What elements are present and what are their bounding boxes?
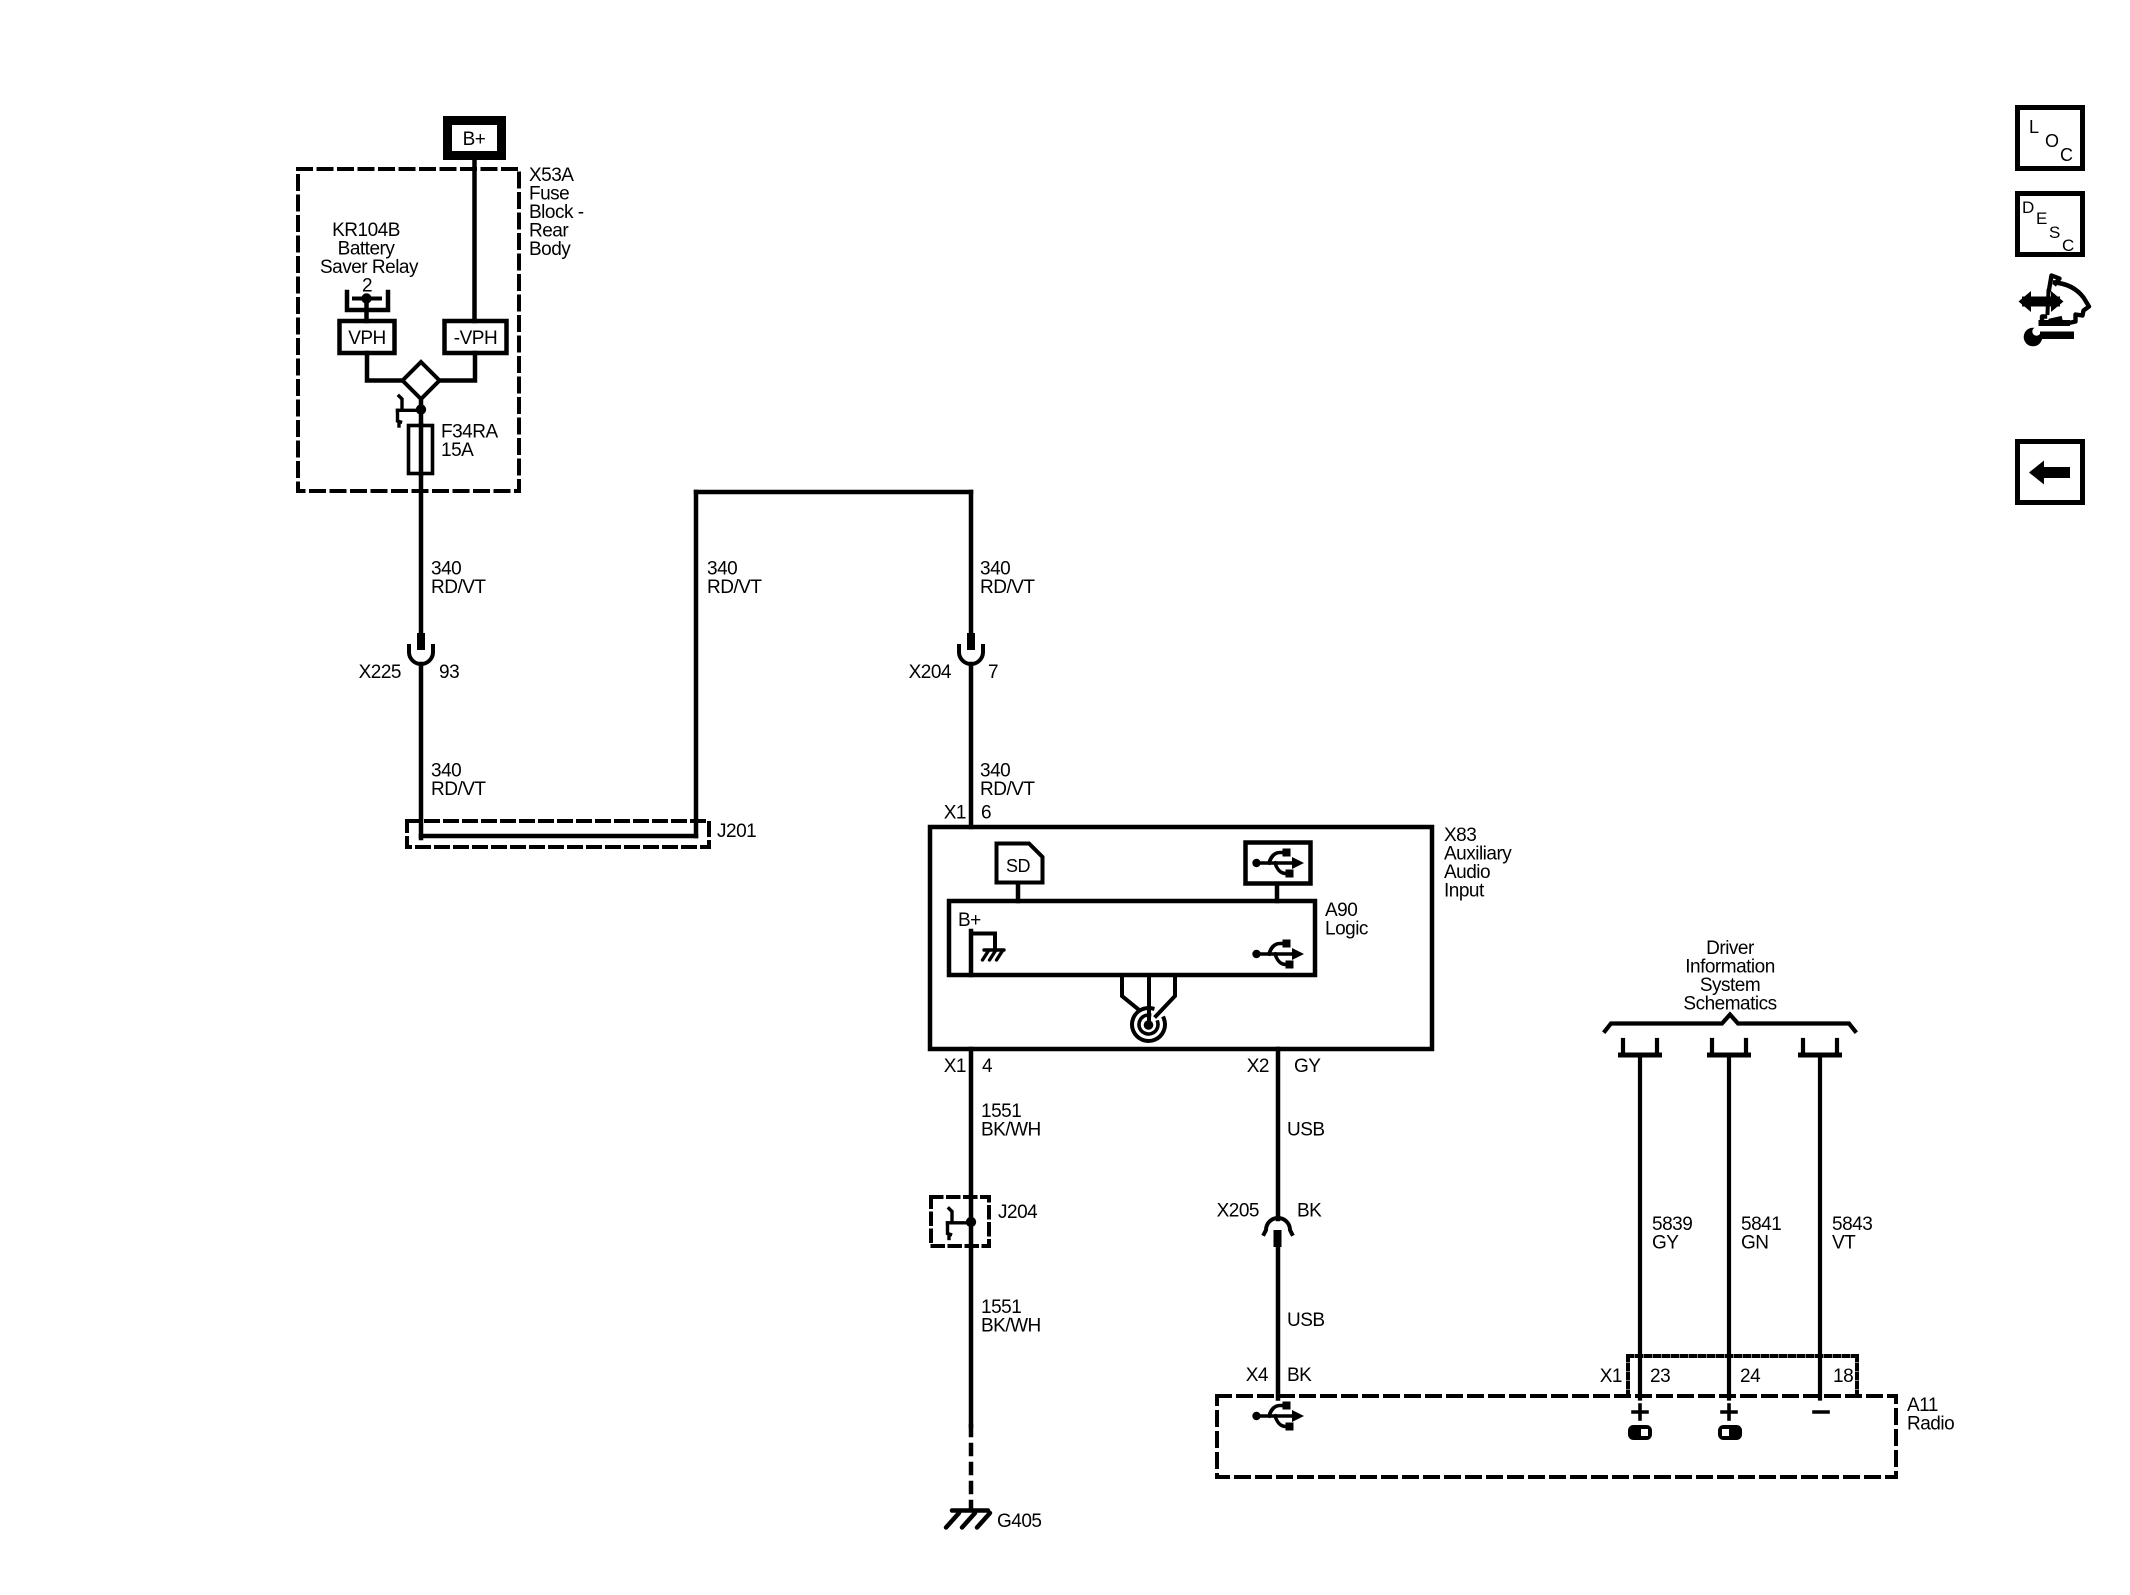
USB trident inside A11: [1252, 1402, 1304, 1431]
chassis ground inside A90: [983, 950, 1005, 960]
terminal box -VPH: [445, 321, 507, 353]
service icon double arrow: [2019, 291, 2064, 312]
internal wire pin 4: [969, 931, 974, 975]
svg-text:E: E: [2036, 209, 2047, 228]
svg-text:4: 4: [982, 1056, 993, 1077]
wire label 340 RD/VT: [431, 559, 486, 599]
USB trident inside A90: [1252, 940, 1304, 969]
wire -VPH to diamond: [439, 353, 475, 381]
service icon panel outline: [2042, 276, 2090, 324]
wire label 1551 BK/WH: [981, 1101, 1041, 1141]
label Driver Information System Schematics: [1683, 938, 1776, 1015]
internal ground stub: [971, 934, 995, 949]
svg-text:X1: X1: [944, 803, 966, 824]
pin label X1 4: [944, 1056, 993, 1077]
svg-text:RD/VT: RD/VT: [431, 577, 486, 598]
module A90 Logic box: [949, 901, 1315, 975]
svg-text:Body: Body: [529, 239, 571, 260]
connector X205: [1264, 1218, 1292, 1247]
svg-text:BK/WH: BK/WH: [981, 1120, 1041, 1141]
wire label 5839 GY: [1652, 1214, 1692, 1254]
wire through J204: [969, 1197, 974, 1246]
svg-text:15A: 15A: [441, 440, 474, 461]
brace: [1605, 1015, 1855, 1032]
svg-text:VPH: VPH: [348, 328, 386, 349]
label X53A Fuse Block - Rear Body: [529, 165, 584, 260]
tap splice symbol J204: [948, 1209, 977, 1239]
module X83 Auxiliary Audio Input box: [930, 827, 1432, 1049]
svg-text:B+: B+: [463, 129, 486, 150]
pin label X4 BK: [1246, 1365, 1312, 1386]
pin header dotted box: [1628, 1356, 1857, 1394]
svg-text:USB: USB: [1287, 1120, 1325, 1141]
label X204 7: [909, 662, 998, 683]
terminal box VPH: [340, 321, 395, 353]
svg-text:X4: X4: [1246, 1365, 1269, 1386]
fuse F34RA: [409, 425, 433, 474]
svg-text:93: 93: [439, 662, 459, 683]
label X205 BK: [1217, 1201, 1323, 1222]
wire J201 up riser: [694, 492, 699, 836]
connector X225 pin 93: [409, 633, 433, 664]
svg-text:D: D: [2022, 198, 2034, 217]
label relay KR104B Battery Saver Relay: [320, 220, 419, 297]
svg-text:RD/VT: RD/VT: [980, 577, 1035, 598]
nav icon DESC box: [2018, 194, 2083, 256]
wire 5841: [1727, 1055, 1731, 1399]
svg-text:18: 18: [1833, 1366, 1853, 1387]
splice J201 dashed box: [407, 821, 709, 847]
DIS connector 3: [1801, 1040, 1840, 1055]
wire label 340 RD/VT: [707, 559, 762, 599]
wire label 340 RD/VT: [980, 761, 1035, 801]
USB port icon (top): [1246, 843, 1311, 884]
dashed wire to ground: [969, 1426, 974, 1509]
wire label 1551 BK/WH: [981, 1297, 1041, 1337]
svg-text:X1: X1: [944, 1056, 966, 1077]
wire X204 to X83: [969, 664, 974, 827]
svg-text:BK/WH: BK/WH: [981, 1316, 1041, 1337]
svg-text:GY: GY: [1652, 1233, 1679, 1254]
tap splice symbol at fuse feed: [398, 396, 427, 426]
wire J204 down: [969, 1246, 974, 1426]
wire X2 to X205: [1276, 1049, 1281, 1219]
wire VPH to diamond: [367, 353, 403, 381]
relay KR104B terminal 2 symbol: [347, 292, 388, 321]
label X83 Auxiliary Audio Input: [1444, 825, 1512, 902]
fuse block X53A dashed box: [298, 169, 519, 491]
svg-text:L: L: [2029, 117, 2039, 137]
svg-text:S: S: [2049, 223, 2060, 242]
svg-text:Logic: Logic: [1325, 919, 1368, 940]
svg-text:X1: X1: [1600, 1366, 1622, 1387]
chassis ground G405: [946, 1511, 990, 1528]
svg-text:GY: GY: [1294, 1056, 1321, 1077]
junction diamond: [403, 362, 440, 399]
svg-text:G405: G405: [997, 1511, 1041, 1532]
svg-text:C: C: [2060, 145, 2073, 165]
svg-text:X204: X204: [909, 662, 952, 683]
svg-text:X2: X2: [1247, 1056, 1269, 1077]
aux jack symbol below A90: [1122, 976, 1175, 1046]
wire 5843: [1818, 1055, 1822, 1399]
wire label 340 RD/VT: [980, 559, 1035, 599]
svg-text:X205: X205: [1217, 1201, 1259, 1222]
radio A11 dashed box: [1217, 1396, 1896, 1477]
svg-text:RD/VT: RD/VT: [980, 779, 1035, 800]
wire B+ down to -VPH: [472, 160, 477, 321]
polarity plus pin23: [1633, 1405, 1647, 1419]
svg-text:USB: USB: [1287, 1310, 1325, 1331]
wire top horizontal run: [696, 490, 971, 495]
wire SD to A90: [1016, 883, 1021, 901]
nav icon LOC box: [2018, 108, 2083, 169]
wire J201 horizontal: [421, 834, 696, 839]
svg-text:C: C: [2062, 236, 2074, 255]
svg-text:24: 24: [1740, 1366, 1761, 1387]
wire X205 to A11: [1276, 1247, 1281, 1399]
connector X204 pin 7: [959, 633, 983, 664]
SD card icon: [997, 844, 1043, 883]
label A90 Logic: [1325, 900, 1368, 940]
DIS connector 2: [1710, 1040, 1749, 1055]
wire diamond to fuse: [419, 399, 424, 425]
wire down to X204: [969, 492, 974, 633]
pin label X2 GY: [1247, 1056, 1322, 1077]
splice J204 dashed box: [931, 1197, 989, 1246]
label F34RA 15A: [441, 422, 498, 462]
polarity minus pin18: [1814, 1410, 1828, 1414]
svg-text:-VPH: -VPH: [454, 328, 497, 349]
DIS connector 1: [1621, 1040, 1660, 1055]
svg-text:7: 7: [988, 662, 998, 683]
wire label 340 RD/VT: [431, 761, 486, 801]
back button box: [2018, 442, 2083, 503]
svg-text:J201: J201: [717, 821, 756, 842]
speaker icon left: [1628, 1425, 1652, 1440]
pin label X1 6: [944, 803, 991, 824]
speaker icon right: [1718, 1425, 1742, 1440]
svg-text:Input: Input: [1444, 881, 1485, 902]
svg-text:X225: X225: [359, 662, 401, 683]
wire 5839: [1638, 1055, 1642, 1399]
svg-text:BK: BK: [1297, 1201, 1322, 1222]
svg-text:B+: B+: [958, 910, 981, 931]
svg-text:RD/VT: RD/VT: [431, 779, 486, 800]
svg-text:O: O: [2045, 131, 2059, 151]
wire fuse to X225: [419, 474, 424, 633]
svg-text:RD/VT: RD/VT: [707, 577, 762, 598]
power node B+: [448, 121, 502, 156]
label X225 93: [359, 662, 460, 683]
svg-text:BK: BK: [1287, 1365, 1312, 1386]
wire X83 pin4 down to J204: [969, 1049, 974, 1197]
wire label 5841 GN: [1741, 1214, 1781, 1254]
wire label 5843 VT: [1832, 1214, 1872, 1254]
svg-text:23: 23: [1650, 1366, 1670, 1387]
label A11 Radio: [1907, 1395, 1954, 1435]
svg-text:Radio: Radio: [1907, 1414, 1954, 1435]
wire USB to A90: [1275, 884, 1280, 901]
service icon wrench: [2024, 323, 2074, 346]
wire X225 to J201: [419, 664, 424, 838]
polarity plus pin24: [1722, 1405, 1736, 1419]
svg-text:GN: GN: [1741, 1233, 1769, 1254]
svg-text:J204: J204: [998, 1202, 1038, 1223]
svg-text:6: 6: [981, 803, 991, 824]
svg-text:SD: SD: [1006, 856, 1031, 876]
svg-text:VT: VT: [1832, 1233, 1856, 1254]
